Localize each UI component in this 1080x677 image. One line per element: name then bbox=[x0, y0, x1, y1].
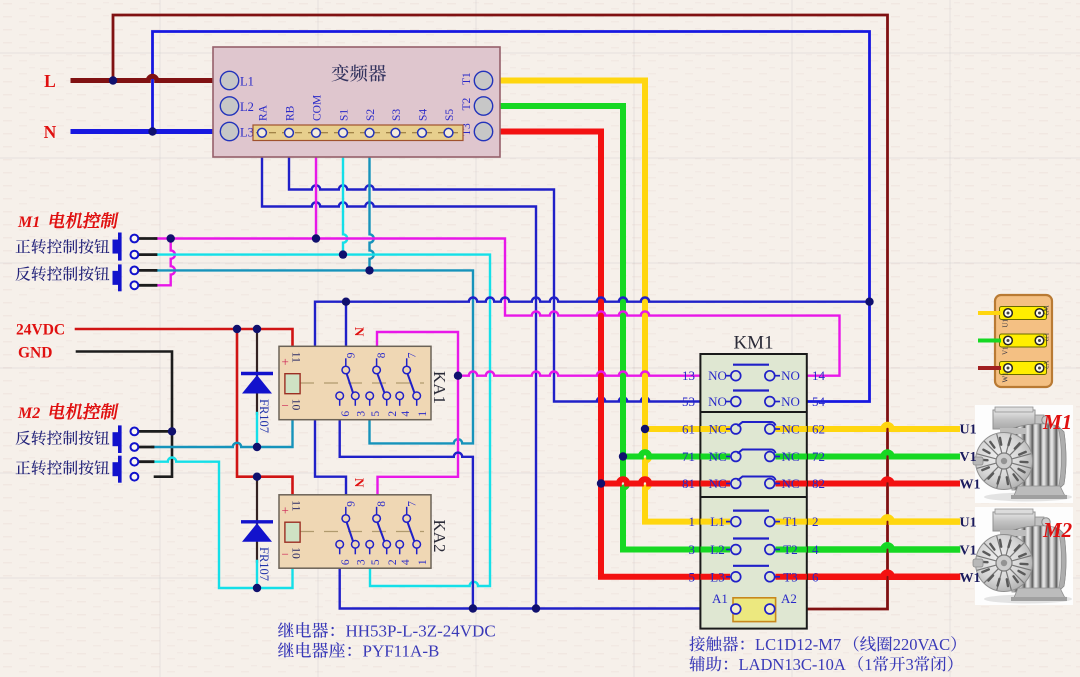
svg-text:KM1: KM1 bbox=[733, 333, 773, 354]
svg-text:3: 3 bbox=[356, 559, 368, 565]
svg-text:2: 2 bbox=[812, 514, 819, 529]
svg-text:S1: S1 bbox=[339, 109, 351, 121]
svg-text:−: − bbox=[282, 398, 289, 413]
junction N-net right riser bbox=[865, 298, 873, 306]
svg-text:NC: NC bbox=[781, 449, 799, 464]
relay KA1 coil bbox=[285, 374, 300, 394]
svg-text:W2: W2 bbox=[1042, 306, 1050, 317]
wire L input to VFD L1 bbox=[73, 76, 220, 80]
svg-text:RB: RB bbox=[285, 105, 297, 121]
wire COM bus magenta to KM1 contact 14 bbox=[155, 239, 840, 376]
svg-text:9: 9 bbox=[345, 352, 357, 358]
svg-text:M2: M2 bbox=[1042, 518, 1073, 542]
stub U1 to terminal block bbox=[980, 311, 999, 315]
label VFD title 变频器 bbox=[332, 64, 386, 81]
label M2 reverse button bbox=[16, 430, 110, 445]
junction yellow at KM1 61 bbox=[641, 425, 649, 433]
svg-text:L1: L1 bbox=[240, 75, 254, 89]
svg-text:S4: S4 bbox=[418, 109, 430, 121]
svg-text:L1: L1 bbox=[710, 514, 724, 529]
wire S2 teal net to KA1 pin5 bbox=[155, 270, 473, 443]
KM1 contact 1-2 (L1/T1) bbox=[700, 511, 806, 527]
svg-text:8: 8 bbox=[376, 501, 388, 507]
pushbutton SB3 M2 reverse bbox=[113, 425, 139, 453]
wire L-phase loop: L bus up, across top, down right side to contactor coil A2 bbox=[113, 15, 888, 609]
svg-text:54: 54 bbox=[812, 394, 826, 409]
svg-text:V2: V2 bbox=[1042, 361, 1050, 370]
wire KM1 82 to motor M1 W1 bbox=[776, 479, 957, 483]
relay KA2 coil bbox=[285, 522, 300, 542]
wire 24VDC bus to KA1 coil +11 bbox=[76, 329, 293, 357]
stub S5 bbox=[447, 137, 449, 147]
wire red branch into KM1 81 bbox=[601, 479, 729, 483]
svg-text:−: − bbox=[282, 546, 289, 561]
caption relay socket type bbox=[278, 642, 351, 658]
svg-text:NC: NC bbox=[781, 422, 799, 437]
junction magenta net to KM1 13 bbox=[454, 372, 462, 380]
KM1 contact 61-62 (NC/NC) bbox=[700, 422, 806, 434]
svg-text:NO: NO bbox=[781, 394, 800, 409]
wire KM1 T3 to motor M2 W1 bbox=[776, 573, 957, 577]
contactor KM1 body bbox=[700, 354, 806, 629]
VFD output terminals T1 T2 T3 bbox=[474, 71, 492, 140]
wire S2 down bbox=[370, 137, 374, 270]
stub M1 fwd button t2 bbox=[139, 253, 156, 256]
svg-text:NO: NO bbox=[708, 394, 727, 409]
stub S4 bbox=[421, 137, 423, 147]
wire diode D2 anode lead bbox=[256, 477, 258, 562]
stub M2 reverse button terminal to GND bbox=[139, 430, 172, 433]
junction red at KM1 81 bbox=[597, 479, 605, 487]
svg-text:W1: W1 bbox=[960, 478, 981, 493]
wire M1 reverse button jumper to COM bus bbox=[155, 239, 175, 286]
svg-text:5: 5 bbox=[689, 569, 696, 584]
relay KA2 body bbox=[279, 495, 431, 568]
svg-text:U1: U1 bbox=[960, 516, 977, 531]
svg-text:3: 3 bbox=[906, 655, 914, 674]
svg-text:L2: L2 bbox=[710, 542, 724, 557]
svg-text:V1: V1 bbox=[1002, 346, 1010, 355]
svg-text:NC: NC bbox=[708, 449, 726, 464]
svg-text:7: 7 bbox=[406, 501, 418, 507]
svg-text:FR107: FR107 bbox=[257, 547, 271, 581]
motor M1 (photo) bbox=[973, 405, 1073, 503]
svg-text:LADN13C-10A: LADN13C-10A bbox=[739, 655, 846, 674]
svg-text:A2: A2 bbox=[781, 591, 797, 606]
svg-text:L3: L3 bbox=[710, 569, 724, 584]
svg-text:1: 1 bbox=[417, 559, 429, 565]
stub M2 rev button t2 bbox=[139, 446, 153, 449]
svg-text:S2: S2 bbox=[365, 109, 377, 121]
stub V1 to terminal block bbox=[980, 339, 999, 343]
svg-text:61: 61 bbox=[682, 422, 695, 437]
wire KA1 pin8 / KA2 pin8 magenta net bbox=[377, 332, 458, 511]
svg-text:NO: NO bbox=[708, 368, 727, 383]
relay KA1 body bbox=[279, 346, 431, 419]
motor terminal block (star connection) bbox=[995, 295, 1052, 387]
junction M1 buttons COM bbox=[167, 234, 175, 242]
wire COM down to pushbutton common bus bbox=[315, 137, 317, 239]
svg-text:T3: T3 bbox=[783, 569, 797, 584]
diode D1 FR107 across KA1 coil bbox=[241, 374, 273, 394]
svg-text:T1: T1 bbox=[461, 72, 473, 85]
junction KA1 pin6 on A1 bus bbox=[469, 604, 477, 612]
svg-text:4: 4 bbox=[400, 411, 412, 417]
svg-text:NO: NO bbox=[781, 368, 800, 383]
svg-text:L2: L2 bbox=[240, 100, 254, 114]
svg-text:NC: NC bbox=[708, 422, 726, 437]
KM1 contact 3-4 (L2/T2) bbox=[700, 539, 806, 555]
caption relay type bbox=[278, 622, 334, 638]
svg-text:82: 82 bbox=[812, 476, 825, 491]
svg-text:+: + bbox=[282, 502, 289, 517]
diode D2 FR107 across KA2 coil bbox=[241, 522, 273, 542]
svg-text:M2: M2 bbox=[17, 405, 40, 422]
junction N bus bbox=[148, 127, 156, 135]
svg-text:6: 6 bbox=[812, 569, 819, 584]
KM1 coil A1-A2 bbox=[731, 598, 776, 622]
svg-text:T2: T2 bbox=[783, 542, 797, 557]
wire T1 yellow to KM1 61 and L1 bbox=[493, 81, 729, 522]
wire T3 red to KM1 81 and L3 bbox=[493, 132, 729, 577]
svg-text:PYF11A-B: PYF11A-B bbox=[363, 642, 440, 661]
VFD control terminal strip bbox=[253, 125, 463, 141]
svg-text:W1: W1 bbox=[960, 571, 981, 586]
wire yellow branch into KM1 61 bbox=[645, 426, 729, 432]
svg-text:2: 2 bbox=[387, 559, 399, 565]
KM1 contact 71-72 (NC/NC) bbox=[700, 449, 806, 461]
junction RA wire on A1 bus bbox=[532, 604, 540, 612]
svg-text:FR107: FR107 bbox=[257, 399, 271, 433]
svg-text:+: + bbox=[282, 354, 289, 369]
wire KA2 coil + lead bbox=[291, 503, 293, 523]
label M2 forward button bbox=[16, 460, 110, 475]
svg-text:13: 13 bbox=[682, 368, 695, 383]
svg-text:1: 1 bbox=[689, 514, 696, 529]
svg-text:N: N bbox=[352, 478, 367, 488]
svg-text:24VDC: 24VDC bbox=[16, 322, 65, 339]
svg-text:M1: M1 bbox=[17, 214, 40, 231]
wire N input to VFD L3 bbox=[73, 129, 220, 134]
wire RA to relay-coil common / KM1 A1 bbox=[262, 137, 536, 609]
KM1 contact 53-54 (NO/NO) bbox=[726, 391, 780, 407]
svg-text:HH53P-L-3Z-24VDC: HH53P-L-3Z-24VDC bbox=[346, 622, 496, 641]
svg-text:GND: GND bbox=[18, 345, 52, 362]
svg-text:NC: NC bbox=[708, 476, 726, 491]
svg-text:NC: NC bbox=[781, 476, 799, 491]
svg-text:4: 4 bbox=[812, 542, 819, 557]
junction COM wire bbox=[312, 234, 320, 242]
svg-text:2: 2 bbox=[387, 411, 399, 417]
junction S2 wire bbox=[365, 266, 373, 274]
svg-text:T2: T2 bbox=[461, 97, 473, 110]
svg-text:53: 53 bbox=[682, 394, 695, 409]
wire GND to M2 buttons outer terminals bbox=[77, 352, 172, 477]
svg-text:6: 6 bbox=[340, 559, 352, 565]
wire KM1 T2 to motor M2 V1 bbox=[776, 545, 957, 549]
wire M2 forward button via KA2 coil -10 bbox=[152, 458, 293, 588]
wire N-net to KA2 pin9 bbox=[315, 298, 870, 512]
svg-text:L: L bbox=[44, 71, 56, 91]
svg-text:N: N bbox=[352, 327, 367, 337]
svg-text:U1: U1 bbox=[1002, 318, 1010, 327]
junction diode D2 bottom bbox=[253, 584, 261, 592]
svg-text:10: 10 bbox=[290, 399, 302, 411]
wire S1 cyan net to KA2 pin5 bbox=[155, 255, 490, 586]
svg-text:M1: M1 bbox=[1042, 410, 1072, 434]
svg-text:72: 72 bbox=[812, 449, 825, 464]
svg-text:4: 4 bbox=[400, 559, 412, 565]
relay KA1 contacts bbox=[336, 358, 421, 406]
KM1 contact 5-6 (L3/T3) bbox=[700, 566, 806, 582]
svg-text:6: 6 bbox=[340, 411, 352, 417]
svg-text:KA1: KA1 bbox=[430, 371, 449, 404]
junction 24VDC to diode D1 bbox=[253, 325, 261, 333]
pushbutton SB1 M1 forward bbox=[113, 233, 139, 261]
svg-text:14: 14 bbox=[812, 368, 826, 383]
svg-text:220VAC: 220VAC bbox=[893, 635, 950, 654]
svg-text:V1: V1 bbox=[960, 450, 977, 465]
svg-text:7: 7 bbox=[406, 352, 418, 358]
motor M2 (photo) bbox=[973, 507, 1073, 605]
svg-text:RA: RA bbox=[258, 104, 270, 121]
svg-text:L3: L3 bbox=[240, 126, 254, 140]
svg-text:U2: U2 bbox=[1042, 333, 1050, 342]
label M1 forward button bbox=[16, 239, 110, 254]
svg-text:11: 11 bbox=[290, 500, 302, 511]
svg-text:U1: U1 bbox=[960, 423, 977, 438]
svg-text:9: 9 bbox=[345, 501, 357, 507]
KM1 contact 81-82 (NC/NC) bbox=[700, 476, 806, 488]
wire N loop: N bus up, across top, down right side into KM1 contact 54 bbox=[153, 32, 870, 402]
junction S1 wire bbox=[339, 250, 347, 258]
wire diode D1 cathode to M2 button line bbox=[256, 413, 258, 447]
svg-text:10: 10 bbox=[290, 547, 302, 559]
wire green branch into KM1 71 bbox=[623, 452, 729, 456]
svg-text:5: 5 bbox=[370, 559, 382, 565]
stub M1 rev button t3 bbox=[139, 269, 156, 272]
svg-text:W1: W1 bbox=[1002, 372, 1010, 383]
wire KA1 pin6 down to A1 bus bbox=[340, 402, 473, 609]
junction GND to M2 button bbox=[168, 427, 176, 435]
wire KM1 T1 to motor M2 U1 bbox=[776, 517, 957, 521]
pushbutton SB4 M2 forward bbox=[113, 456, 139, 483]
svg-text:N: N bbox=[44, 122, 57, 142]
svg-text:S5: S5 bbox=[444, 109, 456, 121]
wire KA2 pin6 along bottom to KM1 coil A1 bbox=[340, 550, 729, 609]
svg-text:81: 81 bbox=[682, 476, 695, 491]
wire KM1 72 to motor M1 V1 bbox=[776, 452, 957, 456]
junction diode D1 to KA1 coil minus line bbox=[253, 443, 261, 451]
stub W1 to terminal block bbox=[980, 366, 999, 370]
wire S1 down bbox=[343, 137, 347, 255]
svg-text:5: 5 bbox=[370, 411, 382, 417]
svg-text:S3: S3 bbox=[391, 109, 403, 121]
VFD input terminals L1 L2 L3 bbox=[220, 71, 238, 140]
svg-text:V1: V1 bbox=[960, 544, 977, 559]
wire RB to KM1 contact 53 bbox=[289, 137, 729, 402]
svg-text:COM: COM bbox=[312, 95, 324, 121]
svg-text:KA2: KA2 bbox=[430, 520, 449, 553]
wire T2 green to KM1 71 and L2 bbox=[493, 106, 729, 550]
wire magenta net into KM1 contact 13 bbox=[458, 372, 729, 376]
svg-text:1: 1 bbox=[864, 655, 872, 674]
caption contactor type bbox=[689, 636, 743, 651]
junction 24VDC to KA2 bbox=[233, 325, 241, 333]
wire N-net branch to KA1 pin9 bbox=[345, 302, 347, 361]
junction N-net KA1 pin9 bbox=[342, 298, 350, 306]
svg-text:11: 11 bbox=[290, 352, 302, 363]
svg-text:62: 62 bbox=[812, 422, 825, 437]
stub M2 fwd button t3 bbox=[139, 460, 153, 463]
wire diode D2 cathode down bbox=[256, 561, 258, 588]
caption auxiliary contact type bbox=[689, 656, 727, 671]
stub M1 fwd button t1 bbox=[139, 237, 156, 240]
svg-text:LC1D12-M7: LC1D12-M7 bbox=[755, 635, 841, 654]
relay KA2 contacts bbox=[336, 507, 421, 555]
VFD (inverter) block U1 变频器 bbox=[213, 47, 500, 157]
svg-text:A1: A1 bbox=[712, 591, 728, 606]
svg-text:3: 3 bbox=[356, 411, 368, 417]
junction L bus bbox=[109, 76, 117, 84]
svg-text:1: 1 bbox=[417, 411, 429, 417]
pushbutton SB2 M1 reverse bbox=[113, 264, 139, 291]
junction 24VDC branch to diode D2 bbox=[253, 473, 261, 481]
stub S3 bbox=[394, 137, 396, 147]
svg-text:8: 8 bbox=[376, 352, 388, 358]
wire KA1 coil + lead bbox=[291, 355, 293, 375]
svg-text:71: 71 bbox=[682, 449, 695, 464]
stub M1 rev button t4 bbox=[139, 284, 156, 287]
svg-text:T1: T1 bbox=[783, 514, 797, 529]
wire M2 reverse button to KA1 coil -10 bbox=[152, 395, 293, 448]
wire KM1 62 to motor M1 U1 bbox=[776, 425, 957, 429]
KM1 contact 13-14 (NO/NO) bbox=[726, 365, 780, 381]
svg-text:3: 3 bbox=[689, 542, 696, 557]
label M1 reverse button bbox=[16, 266, 110, 281]
wire diode D1 anode lead bbox=[256, 329, 258, 414]
junction green at KM1 71 bbox=[619, 452, 627, 460]
wire 24VDC branch to KA2 coil +11 bbox=[237, 329, 293, 505]
